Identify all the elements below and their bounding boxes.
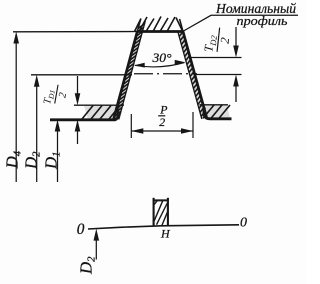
leader line to nominal profile (184, 15, 299, 31)
label D1 (rotated) (42, 152, 63, 170)
right root band tint (201, 105, 230, 118)
left flank band tint (114, 32, 143, 120)
30 arc left arrowhead (134, 63, 145, 68)
right root limit line (200, 104, 229, 106)
svg-text:2: 2 (159, 115, 165, 129)
right root hatch (203, 105, 230, 118)
pitch line D2 nominal, left solid part (31, 74, 132, 76)
30 degree angle arc (135, 63, 185, 67)
left root band tint (84, 106, 124, 119)
TD1/2 upper dimension arrow (77, 76, 79, 94)
left root hatch (82, 106, 120, 120)
right flank band tint (178, 32, 207, 120)
left flank band hatch rungs (114, 24, 144, 117)
P/2 left extension line (130, 114, 132, 138)
upper pitch limit line (190, 57, 242, 59)
P/2 dimension line with arrows (131, 130, 193, 132)
TD2/2 upper dimension arrow (235, 27, 237, 47)
left flank inner limit line (119, 21, 146, 120)
D4 extension line (crest level) (13, 31, 136, 33)
svg-text:0: 0 (240, 216, 247, 231)
pitch line D2 nominal, dash-dot through tooth (134, 73, 197, 75)
D1 dimension line (57, 129, 59, 182)
right flank band hatch rungs (179, 32, 205, 117)
TD1/2 lower dimension arrow (77, 131, 79, 144)
label D2 bottom (rotated) (77, 256, 98, 275)
pitch line D2 nominal, right solid part (195, 74, 242, 76)
svg-text:30°: 30° (151, 51, 171, 65)
left flank outer extension above crest (137, 19, 140, 32)
label TD2/2 (rotated fraction) (201, 26, 233, 54)
axis line 0-0 (88, 225, 239, 229)
svg-text:0: 0 (77, 221, 85, 238)
D2 arrow to axis (bottom) (95, 240, 97, 260)
left root limit line (74, 104, 124, 106)
right flank inner limit line (178, 32, 202, 120)
30 arc right arrowhead (175, 60, 186, 65)
TD2/2 lower dimension arrow (235, 86, 237, 102)
svg-text:профиль: профиль (237, 13, 288, 28)
label D4 (rotated) (3, 150, 24, 169)
nominal profile outline: left flank, crest, right flank (114, 32, 208, 120)
D4 dimension line (15, 41, 17, 182)
label D2 (rotated) (22, 151, 43, 170)
label TD1/2 (rotated fraction) (42, 83, 70, 108)
P/2 fraction bar (158, 115, 165, 117)
tolerance zone hatch above crest (TD4 zone, open upward) (135, 17, 183, 32)
D2 dimension line (36, 84, 38, 182)
P/2 right extension line (192, 112, 194, 138)
hatched bar H on axis (153, 198, 169, 226)
svg-text:H: H (160, 226, 171, 240)
left root nominal line D1 with fillet into flank (50, 108, 118, 120)
right flank outer extension above crest (180, 19, 183, 32)
right root nominal line D1 with fillet into flank (204, 108, 232, 119)
